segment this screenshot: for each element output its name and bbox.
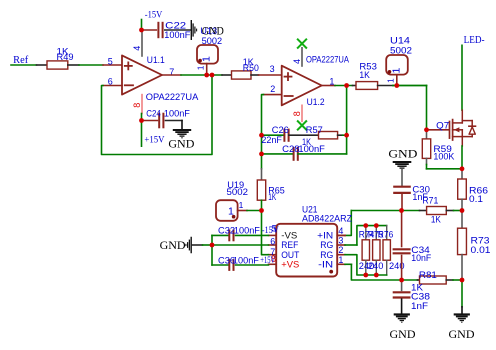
svg-text:3: 3 [270, 64, 275, 74]
svg-text:100nF: 100nF [233, 255, 259, 266]
transistor Q7 [427, 129, 449, 131]
resistor R73 [461, 211, 463, 229]
svg-text:R49: R49 [57, 52, 74, 63]
svg-text:AD8422ARZ: AD8422ARZ [302, 214, 352, 225]
svg-text:1: 1 [228, 206, 234, 218]
power ground (sideways, near C22) [190, 20, 192, 40]
resistor R74 [365, 226, 367, 240]
svg-text:R76: R76 [378, 230, 394, 241]
U13 internal pin dot [198, 59, 202, 63]
resistor R65 [257, 180, 265, 200]
capacitor C34 [401, 211, 403, 247]
junction node: R71 / R66 / R73 [460, 208, 465, 213]
svg-text:1: 1 [385, 78, 395, 83]
wire: C26 to R57 [289, 134, 319, 136]
svg-text:10nF: 10nF [411, 253, 431, 264]
wire: feedback column to R65 [261, 169, 263, 180]
resistor R75 [375, 226, 377, 240]
resistor R81 [402, 279, 418, 281]
svg-text:+15V: +15V [260, 255, 275, 265]
junction node: -15V / C22 / U1.1 pin4 [139, 28, 144, 33]
svg-text:4: 4 [292, 59, 302, 64]
testpoint U14 (5002) [386, 55, 408, 75]
svg-text:1: 1 [329, 77, 334, 87]
U1.2 pin 8 lead [301, 105, 303, 121]
svg-text:6: 6 [270, 236, 275, 246]
svg-text:1nF: 1nF [411, 301, 428, 312]
junction node: gate / R59 [424, 127, 429, 132]
wire: R59/Q7 source to R66 node [427, 168, 463, 170]
junction node: U14 pin on wire [394, 83, 399, 88]
svg-text:+15V: +15V [144, 136, 164, 146]
svg-text:1K: 1K [359, 70, 370, 81]
svg-text:100nF: 100nF [234, 225, 260, 236]
wire: U1.2 feedback right column [346, 86, 348, 154]
wire: R53 to LED branch [393, 85, 427, 87]
svg-text:100nF: 100nF [164, 30, 190, 41]
testpoint U13 (5002) [197, 45, 218, 64]
power ground bottom left [394, 313, 410, 315]
svg-text:C32: C32 [218, 225, 235, 236]
svg-text:R71: R71 [422, 196, 438, 207]
svg-text:R50: R50 [243, 63, 259, 74]
wire: +IN row [351, 210, 401, 212]
svg-text:8: 8 [292, 111, 302, 116]
junction node: C30 / C34 / R71 / +IN [399, 208, 404, 213]
svg-text:0.1: 0.1 [469, 194, 483, 205]
svg-text:GND: GND [160, 240, 186, 252]
resistor R49 [47, 61, 68, 69]
wire: C22 to GND [165, 29, 191, 31]
svg-text:LED-: LED- [464, 35, 485, 46]
resistor R66 [461, 169, 463, 179]
svg-text:100nF: 100nF [298, 144, 325, 155]
resistor R53 [353, 85, 357, 87]
wire: U1.1 output to R50 [162, 74, 181, 76]
svg-text:100nF: 100nF [164, 109, 190, 120]
svg-text:5002: 5002 [227, 187, 249, 198]
wire: U1.2 output [322, 85, 335, 87]
op-amp U1.2 [282, 66, 322, 106]
wire: C24 to GND [166, 120, 183, 122]
wire: to Q7 gate node [426, 86, 428, 130]
svg-text:GND: GND [390, 329, 416, 341]
junction node: R59 / Q7 source / R66 [460, 166, 465, 171]
svg-text:240: 240 [368, 261, 384, 272]
junction node: R81 / R73 / GND right [460, 278, 465, 283]
capacitor C32 branch (-VS) [211, 235, 213, 245]
junction node: RG bottom rail / R74 [363, 273, 368, 278]
junction node: REF / C32 / C36 [210, 243, 215, 248]
svg-text:GND: GND [168, 139, 194, 151]
wire: right node to ground [461, 280, 463, 307]
svg-text:C24: C24 [146, 109, 161, 120]
resistor R50 [222, 74, 232, 76]
svg-text:4: 4 [338, 226, 343, 236]
junction node: feedback column / C26 row [259, 133, 264, 138]
capacitor C30 [393, 186, 411, 188]
wire: LED- down to Q7 drain [461, 45, 463, 110]
no-connect X on U1.2 pin 8 [298, 121, 306, 129]
power ground below C24 [173, 129, 191, 131]
svg-text:-15V: -15V [145, 9, 163, 19]
svg-text:R57: R57 [306, 125, 323, 136]
svg-text:1: 1 [201, 56, 213, 62]
wire: REF row to U21 pin 6 [212, 244, 269, 246]
svg-text:2: 2 [270, 84, 275, 94]
in-amp U21 AD8422ARZ [276, 224, 337, 277]
svg-text:OPA2227UA: OPA2227UA [146, 92, 199, 103]
svg-text:0.01: 0.01 [471, 245, 491, 256]
svg-text:5: 5 [108, 57, 113, 67]
resistor R59 [426, 130, 428, 139]
capacitor C26 [262, 134, 285, 136]
U19 internal pin dot [232, 215, 236, 219]
wire: +IN down to U21 pin 4 [345, 211, 351, 236]
svg-text:C28: C28 [282, 144, 300, 155]
svg-text:2: 2 [338, 245, 343, 255]
junction node: C26/R57 right [344, 133, 349, 138]
capacitor C24 [142, 120, 158, 122]
testpoint U19 (5002) [216, 200, 238, 221]
svg-text:4: 4 [132, 46, 142, 51]
wire: U21 pin 1 (-IN) row [345, 263, 351, 265]
junction node: RG bottom rail / R75 [374, 273, 379, 278]
svg-text:GND: GND [449, 329, 475, 341]
U21 left pin leads [269, 234, 277, 236]
U21 right pin leads [337, 234, 345, 236]
svg-text:U1.2: U1.2 [307, 97, 325, 108]
power ground bottom right [454, 313, 470, 315]
resistor R57 [319, 132, 338, 139]
svg-text:8: 8 [132, 103, 142, 108]
svg-text:1: 1 [239, 200, 244, 210]
wire: Ref to R49 [11, 64, 37, 66]
U14 pin 1 lead [396, 75, 398, 86]
power port -15V [141, 20, 143, 29]
svg-text:-15V: -15V [262, 225, 279, 235]
junction node: U13 pin on output wire [204, 73, 209, 78]
junction node: RG top rail / R74 [363, 223, 368, 228]
capacitor C36 branch (+VS) [211, 245, 213, 265]
junction node: U1.1 pin 8 / C24 / +15V [141, 114, 143, 119]
svg-text:1K: 1K [431, 215, 442, 226]
svg-text:U1.1: U1.1 [147, 55, 165, 66]
svg-text:3: 3 [338, 236, 343, 246]
svg-text:-IN: -IN [318, 260, 333, 271]
no-connect X on U1.2 pin 4 [298, 39, 306, 47]
svg-text:22nF: 22nF [261, 135, 282, 146]
junction node: R65 / U19 / OUT [259, 208, 264, 213]
svg-text:OPA2227UA: OPA2227UA [306, 55, 350, 66]
wire: R49 to U1.1 pin 5 [68, 64, 79, 66]
svg-text:+VS: +VS [281, 260, 299, 271]
junction node: -IN / C34 / C38 / R81 [399, 278, 404, 283]
svg-text:Q7: Q7 [436, 121, 449, 132]
op-amp U1.1 [122, 55, 162, 94]
svg-text:1: 1 [390, 68, 402, 74]
capacitor C38 [401, 280, 403, 290]
svg-text:100K: 100K [433, 152, 455, 163]
U1.1 pin 8 lead [141, 95, 143, 114]
svg-text:GND: GND [388, 149, 417, 161]
resistor R76 [386, 226, 388, 240]
U14 internal pin dot [388, 70, 392, 74]
feedback wire U1.1 (pin 6 loop) [103, 85, 122, 87]
U1.1 pin 4 lead [141, 30, 143, 56]
junction [139, 118, 144, 123]
junction node: RG top rail / R75 [374, 223, 379, 228]
junction node: feedback tap on output wire [210, 73, 215, 78]
wire: U1.2 pin 2 to feedback column [264, 94, 282, 96]
junction node: feedback column / C28 row [259, 152, 264, 157]
svg-text:1K: 1K [268, 192, 276, 203]
wire: RG bottom rail to U21 pin 2 [345, 255, 387, 275]
U19 pin 1 lead [238, 210, 247, 212]
wire: U21 pin 3 to RG top rail [345, 244, 357, 246]
U13 pin 1 lead [206, 64, 208, 75]
junction node: U1.2 output / feedback [344, 83, 349, 88]
capacitor C28 [262, 153, 294, 155]
wire: R50 to U1.2 pin 3 [259, 74, 282, 76]
U1.2 pin 4 lead [301, 48, 303, 66]
svg-text:R81: R81 [419, 270, 437, 281]
svg-text:1: 1 [338, 255, 343, 265]
power port +15V [141, 121, 143, 147]
svg-text:1: 1 [195, 65, 205, 70]
wire: node down to U21 pin 7 (OUT) [262, 211, 269, 255]
capacitor C22 [142, 29, 157, 31]
resistor R71 [420, 210, 427, 212]
U21 internal dot [329, 270, 333, 274]
